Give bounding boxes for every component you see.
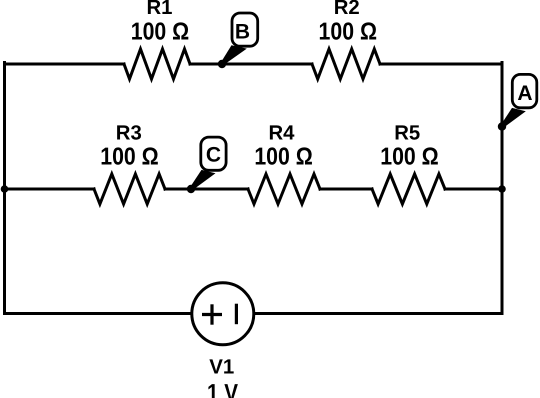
resistor R3 <box>94 174 165 204</box>
wire top right segment <box>380 63 502 66</box>
svg-text:R5: R5 <box>394 121 420 144</box>
node B dot <box>218 60 226 68</box>
svg-text:A: A <box>517 82 532 105</box>
wire middle right stub <box>445 188 502 191</box>
svg-text:100 Ω: 100 Ω <box>380 144 439 171</box>
wire bottom left of source <box>5 312 192 315</box>
svg-text:100 Ω: 100 Ω <box>100 144 159 171</box>
wire middle between R4 and R5 <box>320 188 372 191</box>
svg-text:B: B <box>235 21 250 44</box>
svg-text:R2: R2 <box>334 0 360 19</box>
node A dot <box>498 122 506 130</box>
node B pointer tail <box>221 45 247 65</box>
resistor R5 <box>372 174 445 204</box>
node C label box <box>201 137 226 170</box>
node C pointer tail <box>190 170 216 190</box>
wire bottom right of source <box>254 312 502 315</box>
node A pointer tail <box>501 108 526 128</box>
svg-text:100 Ω: 100 Ω <box>131 19 190 46</box>
svg-text:1 V: 1 V <box>207 380 239 398</box>
V1 minus bar symbol <box>235 304 238 325</box>
svg-text:100 Ω: 100 Ω <box>254 144 313 171</box>
node C dot <box>187 185 195 193</box>
svg-text:100 Ω: 100 Ω <box>319 19 378 46</box>
junction dot middle-right <box>498 185 506 193</box>
V1 plus symbol <box>202 304 236 325</box>
voltage source V1 circle <box>192 283 254 345</box>
wire right vertical <box>501 63 504 314</box>
resistor R1 <box>124 49 190 79</box>
resistor R2 <box>312 49 380 79</box>
junction dot middle-left <box>1 185 9 193</box>
svg-text:R1: R1 <box>147 0 173 19</box>
svg-text:V1: V1 <box>209 355 234 378</box>
svg-text:R4: R4 <box>269 121 296 144</box>
wire top between R1 and R2 (through node B) <box>190 63 312 66</box>
wire left vertical <box>3 63 6 314</box>
svg-text:C: C <box>206 143 221 166</box>
wire middle between R3 and R4 (through node C) <box>165 188 248 191</box>
wire top left segment <box>5 63 125 66</box>
node A label box <box>512 74 537 107</box>
resistor R4 <box>248 174 320 204</box>
wire middle left stub <box>5 188 95 191</box>
node B label box <box>232 13 258 46</box>
svg-text:R3: R3 <box>116 121 142 144</box>
